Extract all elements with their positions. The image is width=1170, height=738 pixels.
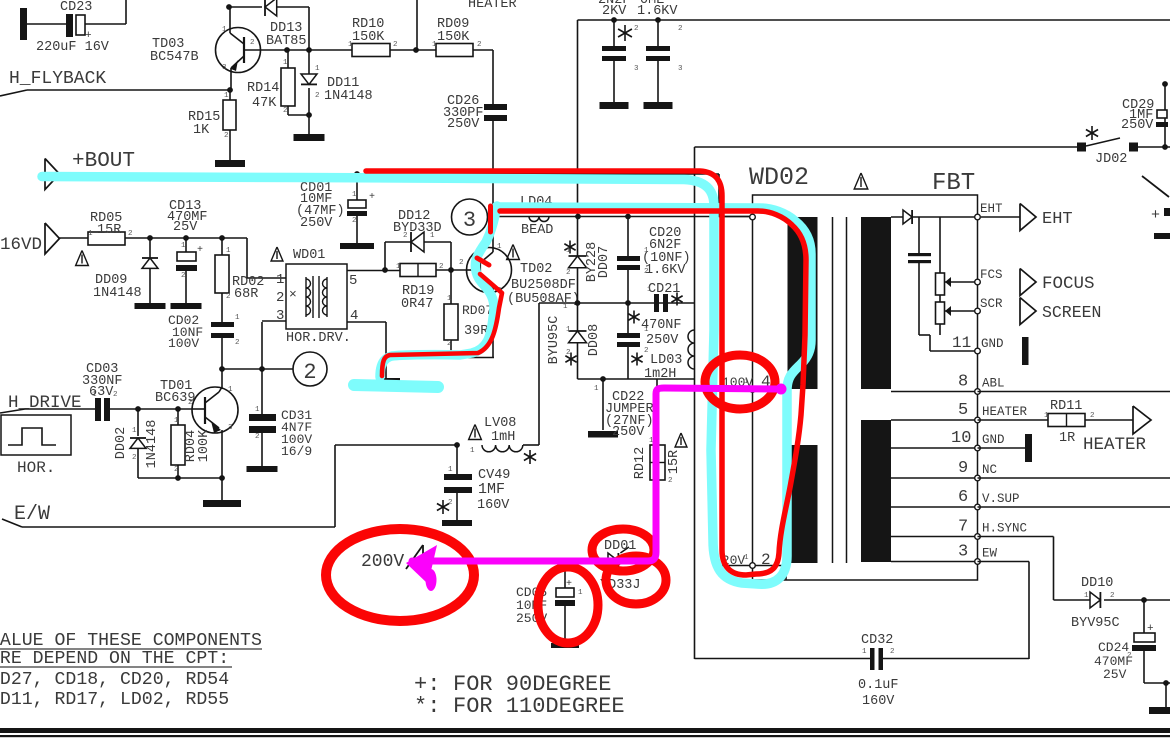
svg-text:150K: 150K [352,30,385,45]
svg-text:1: 1 [226,247,231,255]
svg-text:6: 6 [958,488,968,507]
svg-text:2: 2 [315,92,320,100]
svg-text:0R47: 0R47 [401,297,433,312]
svg-text:1: 1 [647,286,652,294]
svg-text:SCREEN: SCREEN [1042,303,1101,322]
svg-text:1: 1 [566,247,571,255]
svg-text:SCR: SCR [980,297,1003,311]
svg-text:250V: 250V [646,333,679,348]
svg-text:BC547B: BC547B [150,50,199,65]
svg-text:+: + [1151,207,1160,224]
svg-text:1: 1 [1044,412,1049,420]
svg-text:10: 10 [951,429,971,448]
svg-text:2: 2 [439,263,444,271]
svg-text:2: 2 [250,39,255,47]
svg-text:2: 2 [761,551,771,569]
svg-text:DD07: DD07 [597,246,612,278]
svg-text:FBT: FBT [932,170,975,197]
svg-text:3: 3 [228,424,233,432]
svg-text:2: 2 [393,41,398,49]
svg-text:1: 1 [566,326,571,334]
svg-text:1K: 1K [193,123,210,138]
svg-text:5: 5 [958,401,968,420]
svg-text:250V: 250V [447,117,480,132]
svg-text:2: 2 [181,272,186,280]
svg-text:BEAD: BEAD [521,223,553,238]
svg-text:+: + [566,579,572,590]
svg-text:3: 3 [634,65,639,73]
svg-text:RD14: RD14 [247,81,279,96]
svg-text:2KV: 2KV [602,4,627,19]
svg-text:RD07: RD07 [462,303,493,318]
svg-text:2: 2 [644,268,649,276]
svg-text:2: 2 [448,499,453,507]
svg-text:BYU95C: BYU95C [547,316,562,365]
svg-text:LD03: LD03 [650,353,682,368]
svg-text:EHT: EHT [1042,210,1073,229]
svg-text:2: 2 [634,25,639,33]
svg-text:11: 11 [952,334,971,352]
svg-text:GND: GND [981,337,1004,351]
svg-text:JD02: JD02 [1095,152,1127,167]
svg-text:1: 1 [224,92,229,100]
svg-text:HEATER: HEATER [1083,435,1147,455]
svg-text:TD02: TD02 [520,262,552,277]
svg-text:2: 2 [644,347,649,355]
svg-text:200V: 200V [361,552,404,572]
svg-text:CD23: CD23 [60,0,92,15]
svg-text:FOCUS: FOCUS [1042,274,1095,294]
svg-text:2: 2 [566,349,571,357]
svg-text:2: 2 [128,230,133,238]
svg-text:HEATER: HEATER [468,0,517,12]
svg-text:RD12: RD12 [633,447,648,479]
svg-text:FOR 110DEGREE: FOR 110DEGREE [453,694,625,719]
svg-text:1: 1 [348,41,353,49]
svg-text:1: 1 [255,406,260,414]
svg-text:1: 1 [181,242,186,250]
svg-text:2: 2 [1110,592,1115,600]
svg-text:250V: 250V [1121,118,1154,133]
svg-text:1: 1 [744,378,749,386]
svg-text:+BOUT: +BOUT [72,150,135,173]
svg-text:250V: 250V [612,425,645,440]
svg-text:1: 1 [88,230,93,238]
svg-text:2: 2 [477,41,482,49]
svg-text:1: 1 [594,385,599,393]
svg-text:1R: 1R [1059,431,1075,446]
svg-text:1.6KV: 1.6KV [645,263,686,278]
svg-text:1: 1 [744,554,749,562]
svg-text:16/9: 16/9 [281,444,312,459]
svg-text:(BU508AF): (BU508AF) [507,292,580,307]
svg-text:VALUE OF THESE COMPONENTS: VALUE OF THESE COMPONENTS [0,631,262,651]
svg-text:100V: 100V [168,336,199,351]
svg-text:CD21: CD21 [648,282,680,297]
svg-text:2: 2 [224,132,229,140]
svg-text:RD11: RD11 [1050,399,1082,414]
svg-text:2: 2 [668,477,673,485]
svg-text:1MF: 1MF [478,481,505,498]
svg-text:2: 2 [1127,652,1132,660]
svg-text:2: 2 [276,290,284,306]
svg-text:2: 2 [678,25,683,33]
svg-text:1: 1 [430,232,435,240]
svg-text:2: 2 [235,339,240,347]
svg-text:2: 2 [255,433,260,441]
svg-text:2: 2 [174,466,179,474]
svg-text:3: 3 [463,208,476,233]
svg-text:H.SYNC: H.SYNC [982,522,1027,536]
svg-text:1: 1 [644,247,649,255]
svg-text:1: 1 [448,466,453,474]
svg-text:68R: 68R [234,287,258,302]
svg-text:1: 1 [563,303,568,311]
svg-text:1: 1 [276,272,284,288]
svg-text:1: 1 [644,326,649,334]
svg-text:0.1uF: 0.1uF [858,678,899,693]
svg-text:220uF 16V: 220uF 16V [36,40,110,55]
svg-text:H_FLYBACK: H_FLYBACK [9,69,106,89]
svg-text:DD08: DD08 [587,324,602,356]
svg-text:1: 1 [396,263,401,271]
svg-text:1: 1 [283,59,288,67]
svg-text:25V: 25V [173,220,198,235]
svg-text:15R: 15R [97,223,121,238]
svg-text:EW: EW [982,547,998,561]
svg-text:2: 2 [1090,412,1095,420]
svg-text:BAT85: BAT85 [266,34,307,49]
svg-text:NC: NC [982,463,997,477]
svg-text:GND: GND [982,433,1005,447]
svg-text:250V: 250V [300,216,333,231]
svg-text:1N4148: 1N4148 [324,89,373,104]
svg-text:25V: 25V [1103,667,1127,682]
svg-text:+: + [197,245,203,256]
svg-text:1: 1 [578,589,583,597]
svg-text:FCS: FCS [980,268,1003,282]
svg-text:2: 2 [403,232,408,240]
svg-text:HOR.DRV.: HOR.DRV. [286,331,351,346]
svg-text:CD32: CD32 [861,633,893,648]
svg-text:47K: 47K [252,96,277,111]
svg-text:2: 2 [566,269,571,277]
svg-text:16VD: 16VD [0,235,42,255]
svg-text:1: 1 [235,314,240,322]
svg-text:2: 2 [283,107,288,115]
svg-text:150K: 150K [437,30,470,45]
svg-text:WD01: WD01 [293,248,325,263]
svg-text:BYV95C: BYV95C [1071,616,1120,631]
svg-text:HOR.: HOR. [17,459,55,477]
svg-text:3: 3 [958,543,968,562]
svg-text:2: 2 [113,391,118,399]
svg-text:*:: *: [414,694,440,719]
svg-text:3: 3 [276,308,284,324]
svg-text:CD24: CD24 [1098,640,1129,655]
svg-text:1N4148: 1N4148 [145,420,160,469]
svg-text:160V: 160V [862,694,895,709]
svg-text:2: 2 [303,360,316,385]
svg-text:2: 2 [188,399,193,407]
svg-text:WD02: WD02 [749,163,809,192]
svg-text:1: 1 [132,427,137,435]
svg-text:1: 1 [92,391,97,399]
svg-text:2: 2 [352,217,357,225]
svg-text:1: 1 [447,295,452,303]
svg-text:ARE DEPEND ON THE CPT:: ARE DEPEND ON THE CPT: [0,649,229,669]
svg-text:2: 2 [226,293,231,301]
svg-text:+: + [369,192,375,203]
svg-text:3: 3 [678,65,683,73]
svg-text:9: 9 [958,459,968,478]
svg-text:BU2508DF: BU2508DF [511,278,576,293]
svg-text:HEATER: HEATER [982,405,1028,419]
svg-text:1: 1 [315,65,320,73]
svg-text:7: 7 [958,518,968,537]
svg-text:1: 1 [228,386,233,394]
svg-text:2: 2 [132,454,137,462]
svg-text:+: + [1147,623,1154,635]
svg-text:15R: 15R [667,450,682,474]
svg-text:100K: 100K [197,429,212,462]
svg-text:1: 1 [470,447,475,455]
svg-text:V.SUP: V.SUP [982,492,1020,506]
svg-text:1.6KV: 1.6KV [637,4,678,19]
svg-text:EHT: EHT [980,202,1003,216]
svg-text:E/W: E/W [14,503,50,526]
svg-text:LV08: LV08 [484,416,516,431]
svg-text:1: 1 [222,26,227,34]
svg-text:1mH: 1mH [491,430,515,445]
svg-text:1N4148: 1N4148 [93,286,142,301]
svg-text:1: 1 [1084,592,1089,600]
svg-text:DD10: DD10 [1081,576,1113,591]
svg-text:1m2H: 1m2H [644,367,676,382]
svg-text:2: 2 [459,259,464,267]
svg-text:ABL: ABL [982,377,1005,391]
svg-text:1: 1 [497,243,502,251]
svg-text:160V: 160V [477,498,510,513]
svg-text:3: 3 [222,64,227,72]
svg-text:2: 2 [890,648,895,656]
svg-text:2: 2 [447,340,452,348]
svg-text:1: 1 [174,417,179,425]
svg-text:DD02: DD02 [114,427,129,459]
svg-text:×: × [289,287,297,302]
svg-text:8: 8 [958,373,968,392]
svg-text:5: 5 [349,273,357,289]
svg-text:RD11, RD17, LD02, RD55: RD11, RD17, LD02, RD55 [0,690,229,710]
svg-text:1: 1 [432,41,437,49]
svg-text:CD27, CD18, CD20, RD54: CD27, CD18, CD20, RD54 [0,670,229,690]
svg-text:1: 1 [352,191,357,199]
svg-text:1: 1 [862,648,867,656]
